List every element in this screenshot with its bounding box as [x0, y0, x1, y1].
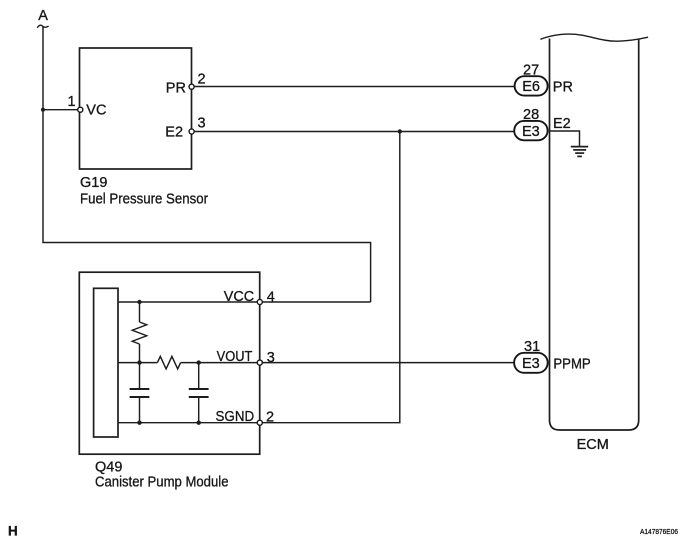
svg-text:E2: E2 — [165, 124, 183, 140]
svg-text:E2: E2 — [553, 116, 571, 132]
svg-text:VOUT: VOUT — [217, 349, 253, 365]
svg-text:2: 2 — [198, 71, 206, 87]
svg-text:A: A — [38, 8, 48, 24]
svg-text:3: 3 — [267, 350, 275, 366]
svg-text:31: 31 — [524, 339, 540, 355]
svg-text:4: 4 — [267, 289, 275, 305]
svg-text:1: 1 — [68, 94, 76, 110]
svg-text:SGND: SGND — [216, 409, 255, 425]
svg-text:PR: PR — [553, 80, 573, 96]
svg-text:PR: PR — [166, 80, 186, 96]
svg-text:A147876E06: A147876E06 — [640, 527, 678, 536]
svg-text:27: 27 — [523, 62, 539, 78]
svg-text:Canister Pump Module: Canister Pump Module — [95, 475, 229, 491]
svg-text:E3: E3 — [522, 124, 540, 140]
svg-text:ECM: ECM — [577, 437, 609, 453]
svg-text:2: 2 — [266, 410, 274, 426]
svg-text:H: H — [8, 523, 18, 538]
svg-text:PPMP: PPMP — [553, 356, 590, 372]
svg-text:E6: E6 — [522, 79, 540, 95]
svg-text:VC: VC — [86, 102, 106, 118]
svg-text:28: 28 — [523, 107, 539, 123]
svg-text:G19: G19 — [80, 175, 107, 191]
svg-text:Q49: Q49 — [95, 460, 122, 476]
svg-text:Fuel Pressure Sensor: Fuel Pressure Sensor — [80, 192, 208, 208]
svg-text:E3: E3 — [522, 356, 540, 372]
svg-text:3: 3 — [198, 115, 206, 131]
svg-text:VCC: VCC — [224, 289, 254, 305]
